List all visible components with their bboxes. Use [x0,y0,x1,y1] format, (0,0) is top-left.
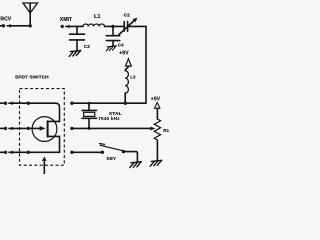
ground below C4 [106,46,116,51]
ground below R1 [150,160,162,166]
ground below C3 [69,51,81,57]
SPDT switch dashed box [20,89,65,166]
node right contact top [70,102,73,105]
svg-text:SPDT SWITCH: SPDT SWITCH [15,75,49,81]
junction xtal top [88,102,91,105]
svg-text:C3: C3 [84,44,90,49]
svg-text:KEY: KEY [107,156,116,161]
capacitor C2 variable [119,18,137,35]
wire C2 output rail right and down to oscillator [72,26,146,103]
ground below key [130,162,142,168]
callout arrow to switch [42,156,47,174]
antenna [23,3,38,26]
node switch pole top [0,102,7,105]
capacitor C4 [106,26,119,46]
wire RCV to antenna with arrowhead [7,24,30,28]
capacitor C3 [70,26,85,50]
node RCV terminal [0,24,5,27]
node switch pole bottom [0,151,7,154]
svg-text:R1: R1 [163,128,169,133]
wire XMIT rail to C2 with arrowhead [66,25,125,29]
wire bottom row to key [72,151,102,153]
svg-text:RCV: RCV [0,16,11,22]
svg-text:+9V: +9V [151,97,161,103]
node right contact middle [70,127,73,130]
junction middle row [27,127,30,130]
junction C4 node [111,25,114,28]
svg-text:7040 kHz: 7040 kHz [98,116,120,121]
svg-text:L3: L3 [130,75,136,80]
power +9V arrow (R1 branch) [151,97,161,109]
wire middle row gate lead [9,127,40,131]
inductor L1 [83,24,105,26]
svg-text:C4: C4 [118,42,124,47]
power +9V arrow (L3 branch) [119,50,131,66]
wire key to ground [123,152,137,163]
inductor L3 [125,71,128,94]
svg-text:XMIT: XMIT [60,17,73,23]
wire +9V to L3 [125,66,128,71]
junction top row [27,102,30,105]
svg-text:C2: C2 [124,13,131,19]
wire L3 bottom [124,93,126,103]
svg-text:L1: L1 [94,14,101,20]
wire top row into box with arrowhead, corner to drain [9,101,60,121]
svg-text:+9V: +9V [119,50,129,56]
junction xtal bottom [88,127,91,130]
junction L3 bottom [124,102,127,105]
crystal XTAL [82,103,97,128]
node XMIT terminal [61,25,64,28]
node right contact bottom [70,151,73,154]
wire bottom row to source corner [9,151,60,155]
potentiometer R1 [154,108,160,161]
junction bottom row [27,151,30,154]
wire middle row to R1 wiper [72,127,155,131]
node switch pole middle [0,127,7,130]
transistor Q1 [32,117,59,153]
key switch [99,144,125,155]
junction antenna base [29,24,32,27]
